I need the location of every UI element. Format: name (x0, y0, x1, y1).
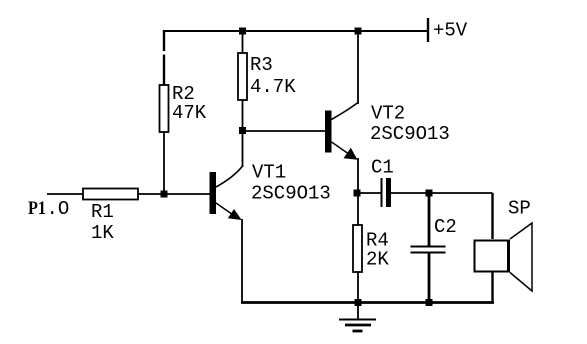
node junction R3 / VT2 base (239, 127, 246, 134)
label VT2 2SC9013 (370, 103, 450, 146)
wire VT1 collector vertical (242, 130, 244, 167)
wire R2 top lead (163, 30, 165, 85)
node junction ground rail / C2 (426, 299, 433, 306)
wire R3 bottom lead (242, 100, 244, 131)
wire C2 top lead (428, 193, 431, 246)
wire R1 to VT1 base (138, 193, 210, 195)
wire VT2 emitter vertical down (357, 158, 359, 225)
node junction top at VT2 collector column (355, 28, 362, 35)
svg-text:.O: .O (47, 198, 70, 220)
svg-text:VT2: VT2 (371, 103, 405, 125)
node junction C1 / C2 (426, 190, 433, 197)
wire VCC top rail (163, 30, 428, 32)
svg-text:P1: P1 (28, 198, 46, 219)
label P1.0 (28, 198, 69, 220)
wire VT2 collector vertical (357, 31, 359, 104)
+5V terminal (427, 18, 429, 42)
transistor VT1 collector (216, 166, 243, 187)
label R4 2K (366, 230, 389, 271)
svg-text:SP: SP (508, 198, 531, 220)
wire R4 bottom lead (357, 272, 359, 303)
svg-text:2SC9O13: 2SC9O13 (251, 183, 331, 205)
resistor R3 (238, 53, 247, 100)
wire R2 bottom lead (163, 132, 165, 194)
transistor VT2 base bar (325, 111, 332, 153)
svg-text:47K: 47K (172, 102, 207, 124)
node junction ground rail / R4 (355, 299, 362, 306)
wire VT1 emitter vertical down (241, 219, 243, 303)
svg-text:VT1: VT1 (252, 162, 286, 184)
resistor R2 (160, 85, 169, 132)
svg-text:R1: R1 (91, 201, 114, 223)
label VT1 2SC9013 (251, 162, 331, 205)
svg-text:C2: C2 (434, 216, 457, 238)
resistor R1 (83, 189, 138, 200)
resistor R4 (353, 225, 362, 272)
wire C2 bottom lead (428, 253, 431, 303)
wire R3 top lead (242, 31, 244, 53)
capacitor C2 (411, 247, 446, 253)
wire VT2 base wire (243, 130, 326, 132)
svg-text:2SC9O13: 2SC9O13 (370, 123, 450, 145)
node junction emitter / C1 (354, 190, 361, 197)
node junction R2 / base wire (161, 191, 168, 198)
svg-text:2K: 2K (366, 249, 389, 271)
wire speaker top lead (491, 193, 493, 239)
label R3 4.7K (250, 54, 296, 98)
transistor VT2 emitter (332, 142, 357, 159)
ground (339, 303, 376, 331)
svg-text:+5V: +5V (433, 20, 468, 42)
capacitor C1 (382, 178, 392, 207)
wire speaker bottom lead (491, 273, 493, 303)
node junction top at R3 column (239, 28, 246, 35)
svg-text:C1: C1 (371, 157, 394, 179)
wire C1 left lead (358, 192, 381, 194)
transistor VT1 base bar (210, 172, 217, 214)
svg-text:1K: 1K (91, 222, 114, 244)
transistor VT2 emitter arrow (344, 148, 358, 160)
speaker SP (475, 223, 533, 291)
label R1 1K (91, 201, 114, 244)
svg-text:R3: R3 (250, 54, 273, 76)
label R2 47K (172, 83, 207, 124)
transistor VT1 emitter arrow (228, 209, 242, 220)
wire input lead (47, 193, 83, 195)
transistor VT2 collector (332, 103, 359, 120)
wire C1 right lead to speaker column (391, 192, 493, 194)
transistor VT1 emitter (216, 203, 239, 219)
wire bottom ground rail (241, 301, 494, 304)
svg-text:4.7K: 4.7K (250, 76, 296, 98)
